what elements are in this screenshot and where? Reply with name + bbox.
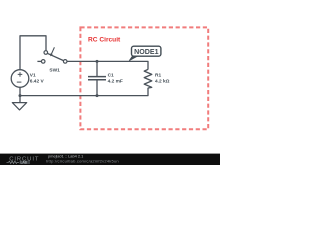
svg-text:http://circuitlab.com/c/a2mf2v: http://circuitlab.com/c/a2mf2v24k5un <box>46 158 119 163</box>
svg-text:NODE1: NODE1 <box>134 48 158 56</box>
footer bar <box>0 154 220 165</box>
RC Circuit enclosure box <box>80 27 208 129</box>
junction node at C1 bottom <box>96 94 99 97</box>
node NODE1 flag <box>129 46 161 61</box>
wire V1 top to switch <box>20 36 46 70</box>
wire V1 bottom to ground <box>19 87 21 102</box>
capacitor C1 <box>88 61 106 95</box>
svg-text:C1: C1 <box>108 72 114 78</box>
ground <box>12 103 26 110</box>
svg-text:LAB: LAB <box>21 161 28 165</box>
wire bottom rail <box>20 88 148 96</box>
svg-text:4.2 mF: 4.2 mF <box>108 79 123 85</box>
switch SW1 <box>37 47 67 63</box>
svg-text:6.42 V: 6.42 V <box>30 79 45 85</box>
svg-text:V1: V1 <box>30 72 36 78</box>
wire switch common to R1 top <box>67 61 148 69</box>
svg-text:SW1: SW1 <box>49 67 60 73</box>
junction node at V1 bottom <box>19 94 22 97</box>
voltage source V1 <box>11 70 29 88</box>
svg-text:R1: R1 <box>155 72 161 78</box>
svg-text:RC Circuit: RC Circuit <box>88 37 121 44</box>
CircuitLab logo <box>7 157 40 165</box>
resistor R1 <box>144 69 152 88</box>
junction node at C1 top <box>96 60 99 63</box>
svg-text:4.2 kΩ: 4.2 kΩ <box>155 79 170 85</box>
